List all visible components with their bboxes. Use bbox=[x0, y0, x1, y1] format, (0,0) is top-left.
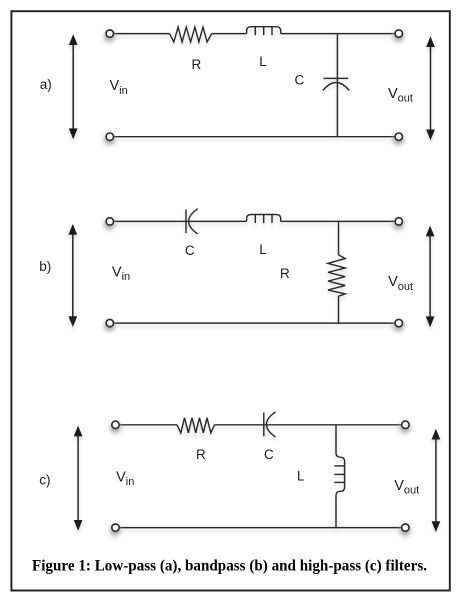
arrow: Vin span marker circuit b bbox=[68, 224, 77, 327]
wire: circuit b bottom rail bbox=[113, 322, 396, 324]
terminal: circuit a output top bbox=[393, 30, 404, 42]
terminal: circuit b input bottom bbox=[104, 319, 115, 331]
svg-text:C: C bbox=[295, 72, 305, 87]
wire: circuit b branch lower lead bbox=[338, 296, 340, 323]
arrow: Vin span marker circuit a bbox=[69, 34, 78, 139]
svg-text:C: C bbox=[264, 447, 274, 462]
svg-text:Vout: Vout bbox=[388, 274, 413, 293]
arrow: Vout span marker circuit a bbox=[426, 36, 435, 140]
wire: circuit c branch upper lead bbox=[336, 425, 340, 457]
terminal: circuit a input bottom bbox=[104, 133, 115, 145]
terminal: circuit c input top bbox=[110, 421, 121, 433]
terminal: circuit b output bottom bbox=[393, 319, 404, 331]
capacitor C (circuit c, series) bbox=[264, 412, 276, 437]
svg-text:L: L bbox=[259, 242, 267, 257]
svg-text:b): b) bbox=[39, 259, 51, 274]
wire: circuit a top rail right segment bbox=[281, 33, 396, 35]
terminal: circuit a input top bbox=[104, 30, 115, 42]
capacitor C (circuit a, shunt) bbox=[323, 78, 349, 90]
terminal: circuit b input top bbox=[104, 218, 115, 230]
terminal: circuit c output top bbox=[400, 421, 411, 433]
inductor L (circuit c, shunt) bbox=[334, 457, 344, 495]
terminal: circuit c output bottom bbox=[400, 524, 411, 536]
arrow: Vout span marker circuit c bbox=[432, 429, 441, 532]
svg-text:Vin: Vin bbox=[116, 469, 134, 488]
resistor R (circuit b, shunt) bbox=[328, 255, 345, 296]
wire: circuit c top rail middle segment bbox=[215, 424, 402, 426]
terminal: circuit a output bottom bbox=[393, 133, 404, 145]
terminal: circuit c input bottom bbox=[110, 524, 121, 536]
wire: circuit b top rail bbox=[113, 220, 247, 222]
svg-text:Figure 1: Low-pass (a), bandpa: Figure 1: Low-pass (a), bandpass (b) and… bbox=[32, 557, 427, 574]
wire: circuit b top rail right segment bbox=[281, 220, 396, 222]
wire: circuit c top rail left segment bbox=[118, 424, 177, 426]
arrow: Vout span marker circuit b bbox=[426, 226, 435, 328]
wire: circuit a between R and L bbox=[212, 33, 247, 35]
wire: circuit c bottom rail bbox=[118, 527, 402, 529]
svg-text:R: R bbox=[196, 447, 206, 462]
svg-text:L: L bbox=[259, 54, 267, 69]
wire: circuit c branch lower lead bbox=[335, 496, 337, 528]
svg-text:a): a) bbox=[40, 77, 52, 92]
wire: circuit a bottom rail bbox=[113, 136, 396, 138]
inductor L (circuit b, series) bbox=[247, 215, 281, 224]
svg-text:R: R bbox=[192, 57, 202, 72]
wire: circuit a top rail left segment bbox=[113, 33, 170, 35]
svg-text:L: L bbox=[297, 469, 305, 484]
arrow: Vin span marker circuit c bbox=[74, 426, 83, 531]
svg-text:R: R bbox=[280, 266, 290, 281]
svg-text:C: C bbox=[185, 243, 195, 258]
terminal: circuit b output top bbox=[393, 218, 404, 230]
resistor R (circuit c, series) bbox=[177, 418, 215, 433]
resistor R (circuit a, series) bbox=[170, 27, 212, 42]
svg-text:Vout: Vout bbox=[388, 86, 413, 105]
wire: circuit a shunt branch bbox=[336, 34, 338, 137]
wire: circuit b branch upper lead bbox=[338, 221, 340, 255]
svg-text:Vin: Vin bbox=[110, 78, 128, 97]
inductor L (circuit a, series) bbox=[247, 27, 281, 36]
svg-text:Vin: Vin bbox=[112, 264, 130, 283]
svg-text:Vout: Vout bbox=[394, 478, 419, 497]
svg-text:c): c) bbox=[39, 473, 50, 488]
capacitor C (circuit b, series) bbox=[186, 209, 198, 234]
